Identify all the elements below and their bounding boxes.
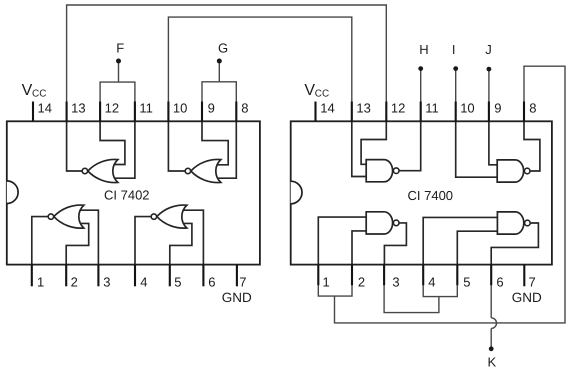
wire net B outer: left pin10 over the top to right pin13 (168, 17, 351, 101)
svg-text:GND: GND (222, 290, 252, 305)
wire NAND2 output to pin8 (524, 121, 540, 171)
svg-text:1: 1 (37, 274, 44, 289)
IC CI7400 package outline (291, 121, 552, 264)
svg-text:H: H (419, 42, 428, 57)
svg-text:10: 10 (173, 101, 187, 116)
svg-text:V: V (304, 82, 315, 99)
NOR gate 4 CI7402 (5,6 -> 4) (151, 205, 187, 228)
wire F goalpost to pins 12,11 (100, 82, 135, 101)
pin stubs CI7400 top 14..8 (314, 102, 316, 122)
wire NOR1 upper input from pin12 (100, 121, 125, 164)
pin number labels CI7402 top (37, 101, 536, 290)
wire F stem (118, 61, 120, 82)
svg-text:5: 5 (463, 274, 470, 289)
svg-text:12: 12 (105, 101, 119, 116)
wire J stem (488, 69, 490, 102)
svg-text:14: 14 (320, 101, 334, 116)
node K dot (489, 346, 494, 351)
node J dot (487, 67, 492, 72)
wire NAND1 lower input from pin13 (net B inner) (352, 121, 367, 176)
svg-text:I: I (452, 42, 456, 57)
NAND gate 2 CI7400 (9,10 -> 8) (497, 160, 530, 182)
node F dot (116, 59, 121, 64)
wire NOR2 upper input from pin9 (202, 121, 228, 165)
IC CI7402 package outline (7, 121, 260, 264)
svg-text:11: 11 (139, 101, 153, 116)
svg-text:3: 3 (392, 274, 399, 289)
NOR gate 1 CI7402 (12,11 -> 13) (82, 159, 118, 182)
svg-text:9: 9 (208, 101, 215, 116)
wire NAND4 output to pin6 (491, 223, 538, 265)
svg-text:G: G (218, 41, 228, 56)
wire NOR3 lower input to pin2 (66, 223, 89, 264)
pin stubs CI7402 bottom 1..7 (31, 265, 33, 287)
wire feedback: right pin8 up, across, down right side, to U-link of pins 1,2 (335, 66, 566, 323)
NOR gate 2 CI7402 (9,8 -> 10) (185, 159, 221, 182)
svg-text:F: F (116, 40, 124, 55)
node G dot (217, 59, 222, 64)
wire I stem (455, 69, 457, 102)
wire NAND1 output to pin11 (399, 121, 421, 170)
svg-text:2: 2 (71, 274, 78, 289)
wire NOR2 lower input from pin8 (218, 121, 236, 178)
pin stubs CI7402 top 14,13,12,11,10,9,8 (32, 102, 34, 122)
wire NOR3 output bubble to pin1 (32, 217, 48, 265)
wire NAND3 lower input to pin2 (352, 231, 367, 265)
svg-text:K: K (488, 355, 497, 369)
wire NOR4 upper input to pin6 (179, 210, 203, 264)
svg-text:6: 6 (496, 274, 503, 289)
wire net A outer: left pin13 up over the top to right pin12 (67, 5, 387, 102)
svg-text:1: 1 (323, 274, 330, 289)
wire NAND2 lower input from pin10 (456, 121, 498, 177)
wire right pin3 to U-link of pins 4,5 (384, 285, 439, 313)
notch CI7402 (7, 181, 18, 204)
wire hop to K terminal (490, 328, 492, 346)
wire NOR2 output pin10 to bubble (168, 121, 185, 171)
wire NAND4 upper input to pin4 (423, 217, 498, 264)
pin stubs CI7400 bottom 1..7 (317, 265, 319, 286)
svg-text:4: 4 (428, 274, 435, 289)
svg-text:14: 14 (38, 101, 52, 116)
wire G stem (218, 61, 220, 82)
svg-text:CC: CC (315, 89, 329, 100)
node H dot (418, 66, 423, 71)
wire right pin6 down to hop (490, 285, 492, 318)
svg-text:5: 5 (174, 274, 181, 289)
svg-text:8: 8 (241, 101, 248, 116)
notch CI7400 (291, 181, 302, 204)
wire H stem (420, 69, 422, 102)
svg-text:J: J (485, 42, 492, 57)
svg-text:CI 7402: CI 7402 (104, 188, 150, 203)
svg-text:CI 7400: CI 7400 (408, 188, 454, 203)
svg-text:2: 2 (358, 274, 365, 289)
NAND gate 4 CI7400 (4,5 -> 6) (497, 212, 530, 234)
wire U-link joining right pins 1,2 (318, 285, 352, 296)
wire NOR4 lower input to pin5 (170, 223, 192, 264)
svg-text:7: 7 (529, 274, 536, 289)
svg-text:12: 12 (391, 101, 405, 116)
wire NAND2 upper input from pin9 (489, 121, 498, 165)
svg-text:V: V (22, 82, 33, 99)
svg-text:13: 13 (71, 101, 85, 116)
svg-text:3: 3 (103, 274, 110, 289)
wire U-link joining right pins 4,5 (423, 285, 457, 297)
svg-text:4: 4 (140, 274, 147, 289)
svg-text:GND: GND (512, 290, 542, 305)
svg-text:11: 11 (425, 101, 439, 116)
wire NOR1 lower input from pin11 (115, 121, 135, 178)
svg-text:7: 7 (239, 274, 246, 289)
wire hop over feedback wire (491, 318, 496, 329)
svg-text:6: 6 (208, 274, 215, 289)
wire NAND1 upper input from pin12 (net A inner) (361, 121, 386, 164)
svg-text:9: 9 (494, 101, 501, 116)
svg-text:13: 13 (356, 101, 370, 116)
wire NAND3 upper input to pin1 (318, 217, 367, 265)
wire NAND4 lower input to pin5 (457, 231, 498, 264)
node I dot (453, 66, 458, 71)
NAND gate 3 CI7400 (1,2 -> 3) (366, 212, 399, 234)
NOR gate 3 CI7402 (2,3 -> 1) (48, 205, 84, 228)
wire NOR3 upper input to pin3 (76, 210, 98, 264)
NAND gate 1 CI7400 (12,13 -> 11) (366, 160, 399, 182)
wire NAND3 output to pin3 (384, 223, 406, 265)
wire NOR4 output bubble to pin4 (135, 217, 151, 265)
wire NOR1 output pin13 to bubble (67, 121, 82, 171)
wire G goalpost to pins 9,8 (202, 82, 236, 102)
svg-text:10: 10 (460, 101, 474, 116)
svg-text:CC: CC (32, 89, 46, 100)
svg-text:8: 8 (529, 101, 536, 116)
